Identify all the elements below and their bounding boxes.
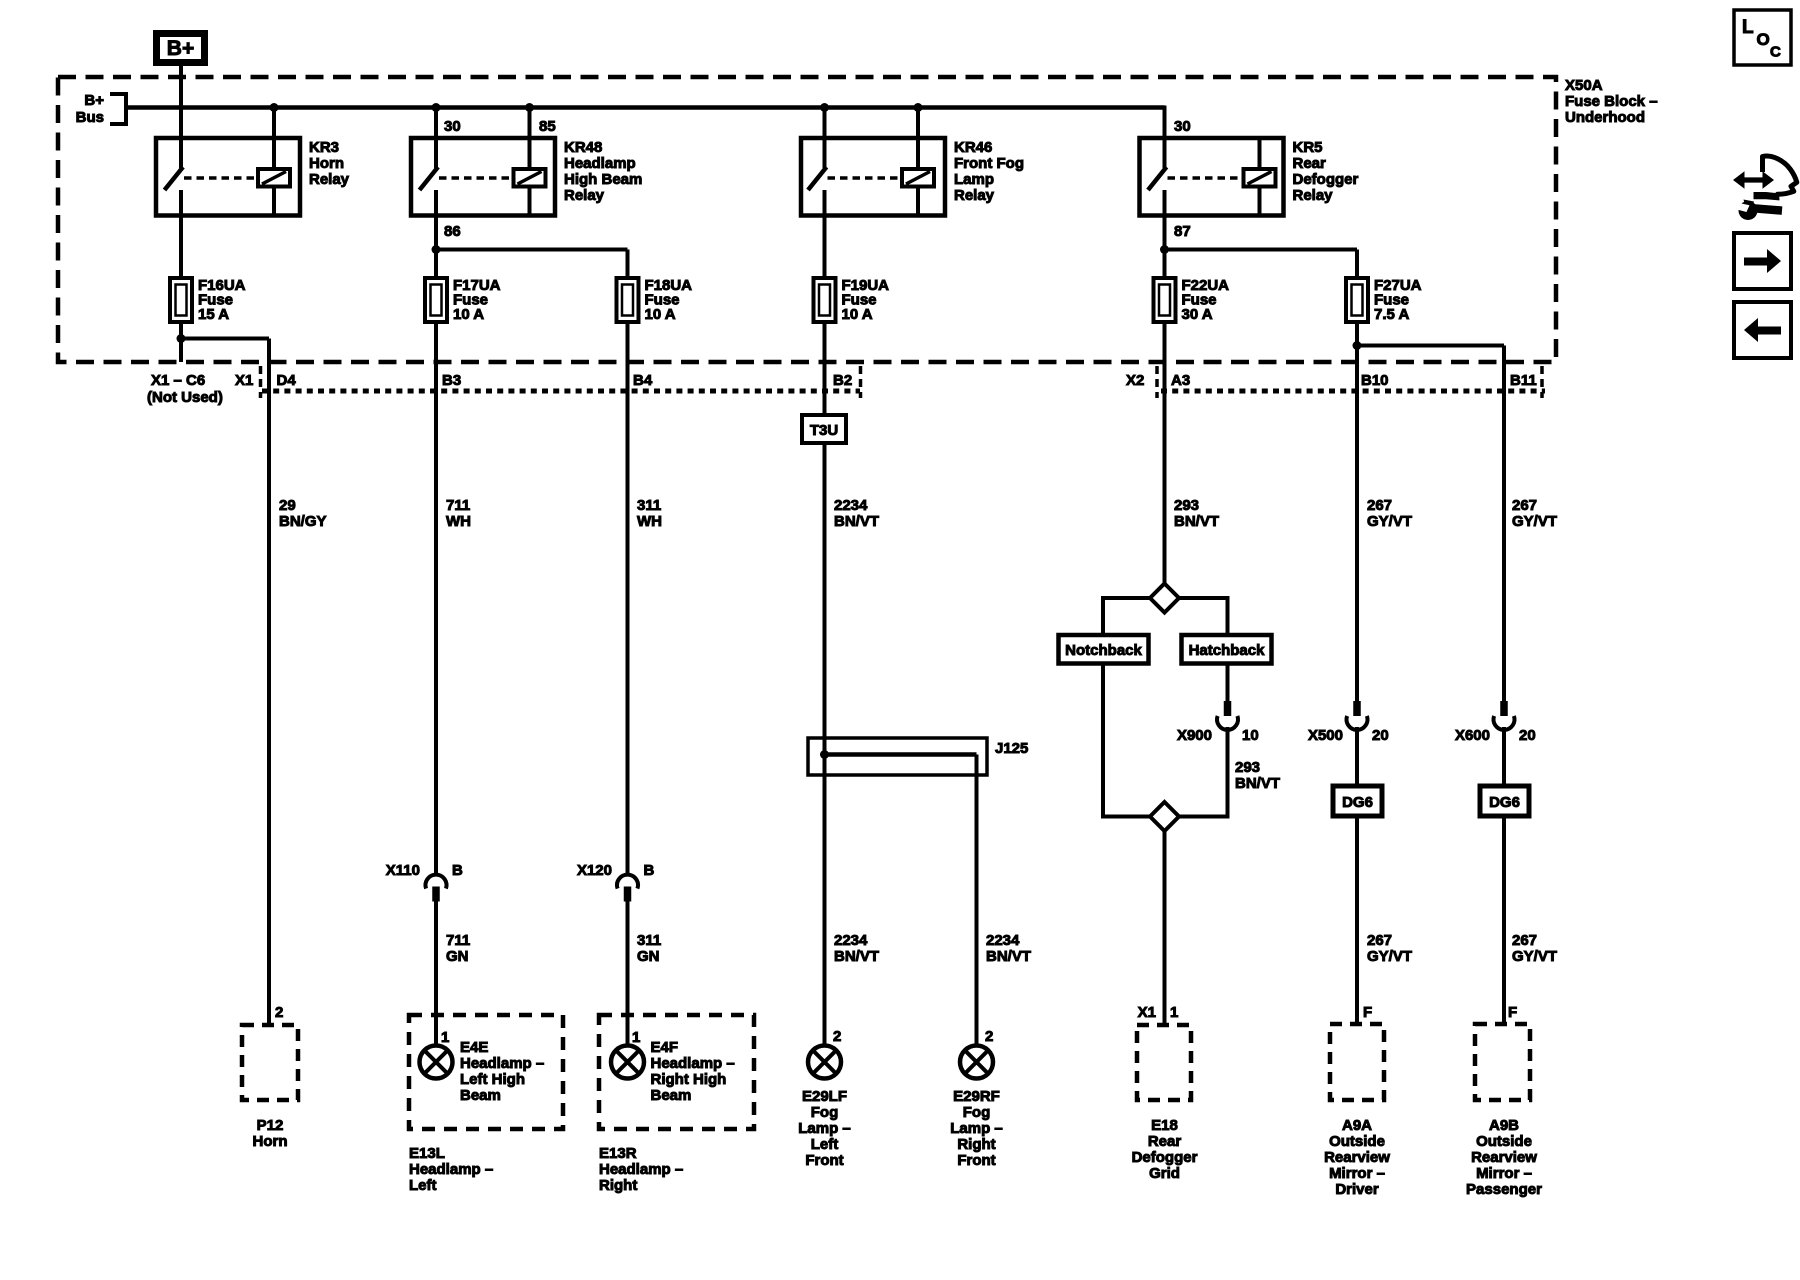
svg-text:2: 2 [275, 1004, 283, 1021]
fuse F27UA [1346, 278, 1368, 322]
svg-text:A3: A3 [1171, 372, 1190, 389]
svg-text:311: 311 [637, 497, 661, 514]
B+ Bus bracket symbol [110, 94, 126, 124]
svg-text:GN: GN [637, 948, 660, 965]
relay KR46 coil stubs [916, 187, 920, 216]
connector X1 dotted line [262, 389, 860, 394]
wire 711 GN to E4E [434, 901, 438, 1046]
wire 311 WH (B4 down) [626, 322, 630, 875]
terminal label B2 [833, 372, 852, 389]
fuse F19UA label [842, 277, 890, 323]
svg-text:29: 29 [279, 497, 296, 514]
svg-text:Headlamp –: Headlamp – [651, 1055, 735, 1072]
label E18 Rear Defogger Grid [1132, 1117, 1198, 1182]
relay KR46 coil [902, 169, 934, 187]
svg-text:BN/GY: BN/GY [279, 513, 327, 530]
relay KR46 switch blade [808, 167, 827, 190]
svg-text:X1: X1 [1138, 1004, 1156, 1021]
wire DG6 to A9A [1355, 816, 1359, 1024]
svg-text:A9A: A9A [1342, 1117, 1372, 1134]
splice diamond bottom [1150, 802, 1179, 831]
component A9A dashed box [1330, 1024, 1384, 1100]
svg-text:F: F [1508, 1004, 1517, 1021]
wire 293 BN/VT to E18 [1163, 831, 1167, 1025]
svg-text:Rear: Rear [1148, 1133, 1182, 1150]
lamp E4F [611, 1046, 644, 1079]
relay KR5 box [1140, 138, 1284, 216]
svg-text:1: 1 [632, 1029, 640, 1046]
svg-text:Left: Left [409, 1177, 437, 1194]
junction dot KR48 pin85 tap [525, 103, 534, 112]
pin label 1 (E4F) [632, 1029, 640, 1046]
connector separator after B11 [1540, 366, 1544, 398]
B+ Bus label [76, 92, 105, 126]
svg-text:Lamp –: Lamp – [798, 1120, 851, 1137]
wire notchback down [1103, 664, 1150, 819]
label E13R Headlamp Right [599, 1145, 683, 1194]
svg-text:Rearview: Rearview [1324, 1149, 1390, 1166]
svg-text:Beam: Beam [651, 1087, 692, 1104]
inline connector X500 [1346, 701, 1367, 730]
wire 2234 BN/VT label (right front) [986, 932, 1031, 965]
svg-text:Right: Right [599, 1177, 637, 1194]
svg-text:X600: X600 [1455, 727, 1490, 744]
svg-text:KR5: KR5 [1293, 139, 1323, 156]
svg-text:Relay: Relay [564, 187, 605, 204]
label X600 20 [1455, 727, 1536, 744]
svg-text:Relay: Relay [954, 187, 995, 204]
svg-text:2234: 2234 [834, 932, 868, 949]
terminal label X1 [235, 372, 253, 389]
pin label 30 (KR5) [1174, 118, 1191, 135]
junction dot KR48 pin30 tap [432, 103, 441, 112]
relay KR5 switch blade [1148, 167, 1167, 190]
wire KR3 output to F16UA [179, 190, 183, 278]
pin label 86 (KR48) [444, 223, 461, 240]
svg-text:BN/VT: BN/VT [834, 948, 879, 965]
svg-text:T3U: T3U [810, 422, 838, 439]
relay KR3 coil stubs [272, 187, 276, 216]
relay KR5 coil stubs [1258, 138, 1262, 216]
wire KR48 pin 85 feed [528, 108, 532, 170]
label E4E Headlamp Left High Beam [460, 1039, 544, 1104]
junction dot KR3 coil tap [270, 103, 279, 112]
fuse F22UA [1154, 278, 1176, 322]
svg-text:Headlamp –: Headlamp – [409, 1161, 493, 1178]
relay KR3 box [156, 138, 300, 216]
component E18 dashed box [1137, 1025, 1191, 1100]
svg-text:Left: Left [811, 1136, 839, 1153]
wire 267 GY/VT label (driver) [1367, 497, 1412, 530]
T3U box [802, 415, 846, 443]
svg-text:Defogger: Defogger [1293, 171, 1359, 188]
svg-text:J125: J125 [995, 740, 1028, 757]
svg-text:B10: B10 [1361, 372, 1389, 389]
svg-text:2: 2 [833, 1028, 841, 1045]
label E13L Headlamp Left [409, 1145, 493, 1194]
svg-text:L: L [1742, 17, 1754, 38]
relay KR46 actuation dashed link [828, 176, 901, 180]
forward arrow box icon [1734, 233, 1791, 289]
relay KR3 actuation dashed link [184, 176, 256, 180]
svg-text:Mirror –: Mirror – [1476, 1165, 1532, 1182]
component P12 Horn dashed box [242, 1025, 298, 1100]
LOC locator box icon [1734, 10, 1791, 65]
relay KR48 coil stubs [528, 187, 532, 216]
svg-text:267: 267 [1367, 932, 1392, 949]
svg-text:BN/VT: BN/VT [834, 513, 879, 530]
label E29RF Fog Lamp Right Front [950, 1088, 1003, 1169]
svg-text:Horn: Horn [309, 155, 344, 172]
junction dot mirror branch [1353, 341, 1362, 350]
svg-text:2234: 2234 [834, 497, 868, 514]
svg-text:30: 30 [1174, 118, 1191, 135]
fuse F27UA label [1374, 277, 1422, 323]
pin label 30 (KR48) [444, 118, 461, 135]
junction dot 87 branch [1160, 245, 1169, 254]
wire notchback branch [1103, 596, 1150, 635]
label P12 Horn [253, 1117, 288, 1150]
svg-text:WH: WH [637, 513, 662, 530]
svg-text:30: 30 [444, 118, 461, 135]
svg-text:Driver: Driver [1335, 1181, 1379, 1198]
svg-text:E4F: E4F [651, 1039, 679, 1056]
svg-text:B+: B+ [84, 92, 104, 109]
wire 267 GY/VT label (passenger) [1512, 497, 1557, 530]
svg-text:Headlamp –: Headlamp – [599, 1161, 683, 1178]
svg-text:86: 86 [444, 223, 461, 240]
pin label 2 (P12) [275, 1004, 283, 1021]
svg-text:B11: B11 [1510, 372, 1537, 389]
relay KR48 actuation dashed link [439, 176, 512, 180]
svg-text:E29LF: E29LF [802, 1088, 847, 1105]
inline connector X120 [617, 875, 638, 902]
label X1-C6 not used [147, 372, 223, 406]
svg-text:Headlamp –: Headlamp – [460, 1055, 544, 1072]
junction dot 86 branch [432, 245, 441, 254]
svg-text:(Not Used): (Not Used) [147, 389, 223, 406]
splice pack J125 [808, 738, 987, 775]
label E29LF Fog Lamp Left Front [798, 1088, 851, 1169]
wire 87 branch to F27UA [1165, 250, 1358, 279]
svg-text:7.5 A: 7.5 A [1374, 306, 1409, 323]
wire F16UA stub X1-C6 not used [179, 322, 183, 362]
relay KR3 switch blade [165, 167, 184, 190]
svg-text:Fog: Fog [811, 1104, 839, 1121]
relay KR48 switch blade [420, 167, 439, 190]
wire 711 WH (B3 down) [434, 322, 438, 875]
svg-text:10 A: 10 A [453, 306, 484, 323]
svg-text:20: 20 [1372, 727, 1389, 744]
svg-text:293: 293 [1174, 497, 1199, 514]
svg-text:BN/VT: BN/VT [1235, 775, 1280, 792]
pin label 87 (KR5) [1174, 223, 1191, 240]
wire KR46 coil feed [916, 108, 920, 170]
svg-text:Rear: Rear [1293, 155, 1327, 172]
connector X2 dotted line [1161, 389, 1545, 394]
svg-text:Outside: Outside [1329, 1133, 1385, 1150]
wire 2234 BN/VT label [834, 497, 879, 530]
label X900 10 [1177, 727, 1259, 744]
wire 86 branch to F18UA [436, 250, 628, 279]
svg-text:KR48: KR48 [564, 139, 602, 156]
relay KR46 label [954, 139, 1024, 204]
svg-text:O: O [1757, 30, 1770, 49]
svg-text:X1 – C6: X1 – C6 [151, 372, 205, 389]
wire KR46 switch feed [823, 108, 827, 169]
svg-text:1: 1 [1170, 1004, 1178, 1021]
inline connector X600 [1493, 701, 1514, 730]
svg-text:D4: D4 [277, 372, 297, 389]
svg-text:X2: X2 [1126, 372, 1144, 389]
wire X600 to DG6 [1502, 727, 1506, 786]
Hatchback option box [1182, 635, 1272, 664]
wire 293 BN/VT label [1174, 497, 1219, 530]
svg-text:X1: X1 [235, 372, 253, 389]
wire 711 WH label [446, 497, 471, 530]
label A9A Outside Rearview Mirror Driver [1324, 1117, 1390, 1198]
svg-text:KR3: KR3 [309, 139, 339, 156]
inline connector X110 [426, 875, 447, 902]
svg-text:10: 10 [1242, 727, 1259, 744]
terminal label B3 [442, 372, 461, 389]
pin label 85 (KR48) [539, 118, 556, 135]
svg-text:E18: E18 [1151, 1117, 1178, 1134]
svg-text:Defogger: Defogger [1132, 1149, 1198, 1166]
svg-text:85: 85 [539, 118, 556, 135]
svg-text:87: 87 [1174, 223, 1191, 240]
component A9B dashed box [1475, 1024, 1530, 1100]
label X120 B [577, 862, 655, 879]
svg-text:B: B [644, 862, 655, 879]
splice diamond top [1150, 584, 1179, 613]
svg-text:Fog: Fog [963, 1104, 991, 1121]
relay KR48 box [411, 138, 555, 216]
svg-text:C: C [1770, 44, 1781, 61]
fuse F22UA label [1182, 277, 1230, 323]
wire 2234 BN/VT below T3U [823, 443, 827, 775]
svg-text:Front: Front [805, 1152, 843, 1169]
svg-text:BN/VT: BN/VT [1174, 513, 1219, 530]
wire 293 BN/VT (A3 down) [1163, 322, 1167, 584]
terminal label A3 [1171, 372, 1190, 389]
wire 311 GN label [637, 932, 661, 965]
svg-text:30 A: 30 A [1182, 306, 1213, 323]
pin label 2 (E29RF) [985, 1028, 993, 1045]
wire 293 BN/VT label (below X900) [1235, 759, 1280, 792]
fuse F18UA label [645, 277, 693, 323]
connector separator X1 [259, 366, 263, 398]
svg-text:GY/VT: GY/VT [1512, 513, 1557, 530]
svg-text:GY/VT: GY/VT [1367, 948, 1412, 965]
svg-text:Left High: Left High [460, 1071, 525, 1088]
label E4F Headlamp Right High Beam [651, 1039, 735, 1104]
svg-text:Passenger: Passenger [1466, 1181, 1542, 1198]
svg-text:10 A: 10 A [842, 306, 873, 323]
svg-text:Beam: Beam [460, 1087, 501, 1104]
wire 293 BN/VT below X900 [1179, 727, 1228, 819]
DG6 box (driver) [1333, 786, 1382, 816]
svg-text:267: 267 [1512, 932, 1537, 949]
wire KR5 pin 30 feed (bus corner) [1163, 106, 1167, 169]
svg-text:Right: Right [957, 1136, 995, 1153]
svg-text:Right High: Right High [651, 1071, 727, 1088]
wire jog to B11 [1357, 346, 1504, 702]
fuse F19UA [814, 278, 836, 322]
relay KR3 coil [258, 169, 290, 187]
svg-text:High Beam: High Beam [564, 171, 642, 188]
svg-text:Outside: Outside [1476, 1133, 1532, 1150]
wire KR48 output pin 86 [434, 190, 438, 278]
svg-text:Front: Front [957, 1152, 995, 1169]
svg-text:B+: B+ [167, 37, 194, 60]
svg-text:Underhood: Underhood [1565, 109, 1645, 126]
svg-text:Mirror –: Mirror – [1329, 1165, 1385, 1182]
relay KR5 label [1293, 139, 1359, 204]
label J125 [995, 740, 1028, 757]
svg-text:2: 2 [985, 1028, 993, 1045]
lamp E4E [420, 1046, 453, 1079]
inline connector X900 [1217, 701, 1238, 730]
svg-text:Notchback: Notchback [1065, 642, 1142, 659]
wire F27UA down [1355, 322, 1359, 346]
pin label F (A9A) [1363, 1004, 1372, 1021]
wire F16UA jog to D4 [181, 339, 269, 1026]
lamp E29LF [808, 1046, 841, 1079]
svg-text:293: 293 [1235, 759, 1260, 776]
svg-text:B3: B3 [442, 372, 461, 389]
wire 711 GN label [446, 932, 470, 965]
svg-text:X50A: X50A [1565, 77, 1603, 94]
wire B+ bus horizontal [126, 105, 1165, 110]
fuse block X50A dashed box [58, 77, 1556, 362]
label X110 B [386, 862, 463, 879]
pin labels X1 1 (E18) [1138, 1004, 1179, 1021]
wire hatchback to X900 [1226, 664, 1230, 702]
svg-text:E4E: E4E [460, 1039, 488, 1056]
svg-text:Grid: Grid [1149, 1165, 1180, 1182]
relay KR5 actuation dashed link [1168, 176, 1242, 180]
back arrow box icon [1734, 302, 1791, 358]
DG6 box (passenger) [1480, 786, 1529, 816]
connector separator X2 [1155, 366, 1159, 398]
wire X500 to DG6 [1355, 727, 1359, 786]
fuse F17UA [425, 278, 447, 322]
wire KR46 output to F19UA [823, 190, 827, 278]
svg-text:Headlamp: Headlamp [564, 155, 636, 172]
B+ terminal box [157, 34, 205, 63]
svg-text:2234: 2234 [986, 932, 1020, 949]
svg-text:Relay: Relay [309, 171, 350, 188]
svg-text:E13L: E13L [409, 1145, 445, 1162]
svg-text:P12: P12 [257, 1117, 284, 1134]
terminal label D4 [277, 372, 297, 389]
relay KR5 coil [1244, 169, 1276, 187]
connector separator after B2 [859, 366, 863, 398]
wire KR3 coil feed [272, 108, 276, 170]
svg-text:267: 267 [1512, 497, 1537, 514]
svg-text:20: 20 [1519, 727, 1536, 744]
wire 2234 BN/VT (B2 down) [823, 322, 827, 415]
svg-text:DG6: DG6 [1489, 794, 1520, 811]
junction dot KR46 switch tap [820, 103, 829, 112]
svg-text:A9B: A9B [1489, 1117, 1519, 1134]
relay KR48 label [564, 139, 642, 204]
svg-text:Bus: Bus [76, 109, 104, 126]
relay KR46 box [801, 138, 945, 216]
wire 29 BN/GY label [279, 497, 327, 530]
svg-text:KR46: KR46 [954, 139, 992, 156]
svg-text:15 A: 15 A [198, 306, 229, 323]
svg-text:Rearview: Rearview [1471, 1149, 1537, 1166]
wire 2234 BN/VT to E29RF [975, 755, 979, 1046]
terminal label B11 [1510, 372, 1537, 389]
terminal label X2 [1126, 372, 1144, 389]
svg-text:B4: B4 [633, 372, 653, 389]
svg-text:X120: X120 [577, 862, 612, 879]
junction dot KR46 coil tap [914, 103, 923, 112]
wire 311 GN to E4F [626, 901, 630, 1046]
fuse F16UA [170, 278, 192, 322]
pin label 2 (E29LF) [833, 1028, 841, 1045]
svg-text:10 A: 10 A [645, 306, 676, 323]
svg-text:F: F [1363, 1004, 1372, 1021]
wire 311 WH label [637, 497, 662, 530]
component E13L dashed box [409, 1015, 563, 1129]
svg-text:Lamp: Lamp [954, 171, 994, 188]
terminal label B4 [633, 372, 653, 389]
pin label F (A9B) [1508, 1004, 1517, 1021]
svg-text:GN: GN [446, 948, 469, 965]
terminal label B10 [1361, 372, 1389, 389]
wire 2234 BN/VT label (left front) [834, 932, 879, 965]
wire B+ drop to KR3 [179, 62, 183, 168]
fuse block X50A label [1565, 77, 1658, 126]
svg-text:711: 711 [446, 497, 470, 514]
component E13R dashed box [599, 1015, 754, 1129]
svg-text:711: 711 [446, 932, 470, 949]
label A9B Outside Rearview Mirror Passenger [1466, 1117, 1542, 1198]
wire DG6 to A9B [1502, 816, 1506, 1024]
wire 267 GY/VT label lower (passenger) [1512, 932, 1557, 965]
wire KR5 output pin 87 [1163, 190, 1167, 278]
wire KR48 pin 30 feed [434, 108, 438, 169]
wire 2234 BN/VT to E29LF [823, 775, 827, 1046]
svg-text:X500: X500 [1308, 727, 1343, 744]
svg-text:1: 1 [441, 1029, 449, 1046]
svg-text:Fuse Block –: Fuse Block – [1565, 93, 1658, 110]
junction dot F16UA branch [177, 334, 186, 343]
wire hatchback branch [1179, 596, 1228, 635]
svg-text:311: 311 [637, 932, 661, 949]
svg-text:Front Fog: Front Fog [954, 155, 1024, 172]
wire 267 GY/VT (B10 down) [1355, 346, 1359, 702]
Notchback option box [1059, 635, 1149, 664]
svg-text:X110: X110 [386, 862, 420, 879]
svg-text:BN/VT: BN/VT [986, 948, 1031, 965]
fuse F16UA label [198, 277, 246, 323]
svg-text:X900: X900 [1177, 727, 1212, 744]
svg-text:B: B [452, 862, 463, 879]
lamp E29RF [960, 1046, 993, 1079]
hotlink icon (double arrow, outline shape, wrench) [1733, 156, 1797, 220]
svg-text:DG6: DG6 [1342, 794, 1373, 811]
relay KR48 coil [514, 169, 546, 187]
svg-text:Horn: Horn [253, 1133, 288, 1150]
label X500 20 [1308, 727, 1389, 744]
wire 267 GY/VT label lower (driver) [1367, 932, 1412, 965]
svg-text:WH: WH [446, 513, 471, 530]
